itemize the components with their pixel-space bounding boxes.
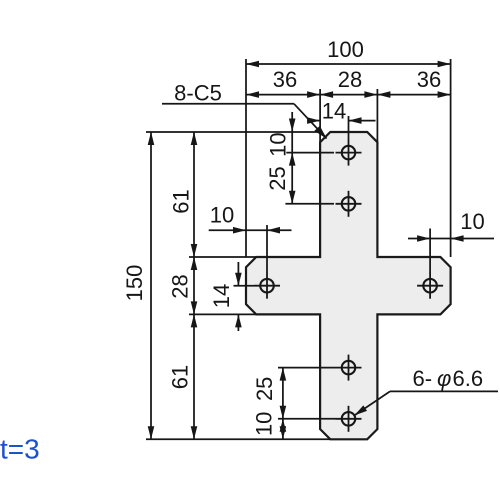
dim 25/10 bottom line (282, 368, 284, 440)
extension arm bottom y=314.4 (189, 313, 256, 315)
svg-text:28: 28 (168, 274, 193, 298)
extension line x=320.1 (319, 89, 321, 142)
svg-text:6.6: 6.6 (453, 366, 484, 391)
dim 10 left line (209, 229, 292, 231)
ext hole6 left (278, 418, 336, 420)
svg-text:14: 14 (209, 284, 234, 308)
svg-text:φ: φ (437, 366, 451, 391)
hole H6 bottom (336, 406, 362, 432)
svg-text:8-C5: 8-C5 (174, 81, 222, 106)
hole1 centerline extension up (348, 116, 350, 140)
extension arm top y=257 (189, 256, 256, 258)
6-phi6.6 leader (390, 390, 498, 392)
extension top edge y=132 (146, 131, 320, 133)
svg-text:6-: 6- (413, 366, 433, 391)
hole H3 left arm (254, 273, 280, 299)
dim 150 line (150, 132, 152, 439)
svg-text:36: 36 (273, 67, 297, 92)
extension line right x=450.6 (450, 59, 452, 257)
36/28/36 arrows (246, 91, 259, 98)
svg-text:14: 14 (322, 99, 346, 124)
svg-text:t=3: t=3 (0, 434, 40, 465)
dim 14 top tails (308, 120, 320, 122)
10/25 upper arrows (289, 119, 296, 132)
ext hole4 centerline up (429, 229, 431, 274)
svg-text:28: 28 (338, 67, 362, 92)
hole H1 top (336, 140, 362, 166)
svg-text:10: 10 (251, 412, 276, 436)
10 left arrows (outside) (233, 227, 246, 234)
extension line left x=246 (245, 59, 247, 257)
svg-text:25: 25 (252, 377, 277, 401)
6-phi6.6 leader arrow (353, 405, 367, 418)
14 left arrows (outside) (235, 273, 242, 286)
ext hole5 left (278, 367, 336, 369)
14 top arrows (outside) (307, 117, 320, 124)
ext hole1 left (286, 152, 334, 154)
extension bottom edge y=439.3 (146, 438, 330, 440)
svg-text:10: 10 (460, 209, 484, 234)
svg-text:25: 25 (265, 166, 290, 190)
svg-text:10: 10 (210, 203, 234, 228)
25/10 bottom arrows (280, 368, 287, 381)
svg-text:61: 61 (169, 189, 194, 213)
10 right arrows (outside) (417, 235, 430, 242)
dim 36/28/36 line (246, 94, 451, 96)
dim 10 right line (408, 238, 494, 240)
svg-text:36: 36 (417, 67, 441, 92)
dim 14 left tails (237, 262, 239, 286)
extension line x=377.4 (376, 89, 378, 142)
svg-text:61: 61 (168, 365, 193, 389)
plate outline (cross shaped plate, 8 chamfered corners, light gray fill) (246, 132, 451, 439)
svg-text:10: 10 (266, 132, 291, 156)
svg-text:150: 150 (122, 265, 147, 302)
thin lines group (146, 59, 498, 439)
ext hole3 centerline up (266, 225, 268, 273)
hole H5 bottom area upper (336, 355, 362, 381)
dimension texts (122, 37, 485, 436)
dim 10/25 upper line (291, 112, 293, 204)
arrowheads (148, 61, 464, 440)
dim 61/28/61 line (193, 132, 195, 439)
150 arrows (148, 132, 155, 145)
ext hole3 centerline left (234, 285, 255, 287)
hole H4 right arm (417, 273, 443, 299)
hole H2 (336, 191, 362, 217)
ext hole2 left (285, 203, 334, 205)
100 dim arrows (246, 61, 259, 68)
svg-text:100: 100 (327, 37, 364, 62)
61/28/61 arrows (191, 132, 198, 145)
8-C5 leader arrow (314, 126, 329, 142)
dim 100 line (246, 63, 451, 65)
8-C5 leader (162, 103, 294, 105)
